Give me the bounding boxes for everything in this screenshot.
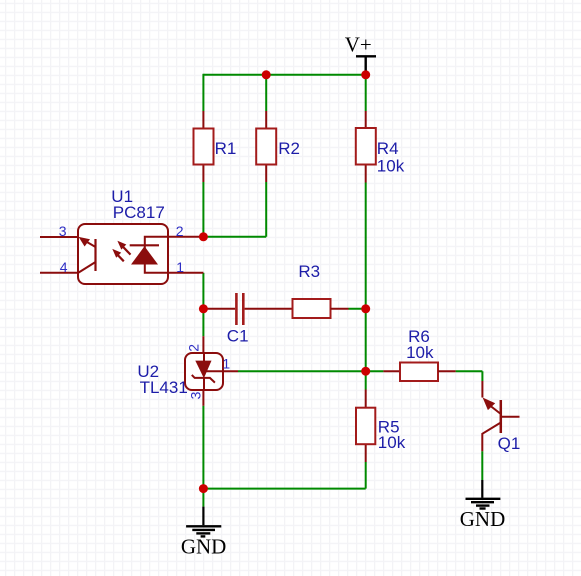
LED cathode bar (130, 244, 159, 246)
svg-text:1: 1 (176, 259, 184, 275)
svg-text:GND: GND (460, 507, 506, 531)
wire Q1 emitter to gnd (481, 451, 483, 480)
junction node U2 pin1 / R5 / R6 (361, 367, 370, 376)
ground right (460, 480, 506, 531)
wire U1 pin1 down to C1 node (202, 273, 204, 309)
wire R2 column from rail (265, 75, 267, 111)
wire left column from rail to R1 (202, 74, 204, 111)
svg-text:Q1: Q1 (498, 434, 521, 453)
wire R4 column from rail (365, 75, 367, 111)
pin 3 stub (40, 236, 78, 238)
triangle (195, 361, 211, 379)
pin 1 line (206, 370, 238, 372)
wire R3 to R4 column (349, 308, 366, 310)
svg-text:1: 1 (222, 356, 230, 372)
junction node V+ rail / R4 (361, 70, 370, 79)
svg-text:3: 3 (188, 391, 204, 399)
wire R5 bottom to gnd rail (203, 462, 365, 489)
body (185, 353, 223, 390)
resistor R2 (256, 111, 300, 182)
pin 2 top (202, 336, 204, 353)
wire node to R6 (366, 370, 384, 372)
wire C1 node down to U2 pin2 (202, 309, 204, 336)
resistor R3 (293, 262, 349, 318)
resistor R1 (194, 111, 237, 182)
capacitor C1 (203, 293, 292, 345)
resistor R4 (356, 111, 405, 183)
phototransistor base bar (94, 239, 96, 271)
svg-text:PC817: PC817 (113, 203, 165, 222)
internal vertical bottom (203, 378, 205, 390)
svg-text:TL431: TL431 (140, 378, 188, 397)
light arrow 1 (122, 245, 131, 254)
optocoupler U1 PC817 (40, 187, 203, 284)
emitter diagonal (79, 262, 96, 273)
internal vertical top (203, 353, 205, 361)
junction node ground rail (199, 484, 208, 493)
junction node U1 pin2 / R1 / R2 (199, 232, 208, 241)
wire R6 to Q1 collector (456, 371, 483, 381)
collector stub (481, 381, 483, 398)
svg-text:10k: 10k (378, 433, 406, 452)
svg-text:3: 3 (59, 223, 67, 239)
wire gnd node stub (202, 489, 204, 507)
svg-text:2: 2 (176, 223, 184, 239)
wire top rail (203, 74, 365, 76)
wire R1 bottom to node (202, 182, 204, 237)
pin 4 stub (40, 272, 78, 274)
emitter diagonal and lead (482, 423, 501, 452)
svg-text:R1: R1 (215, 139, 237, 158)
svg-text:10k: 10k (377, 156, 405, 175)
svg-text:R3: R3 (298, 262, 320, 281)
LED bracket (145, 237, 168, 273)
resistor R5 (356, 390, 406, 463)
collector diagonal with arrow (84, 240, 96, 247)
svg-text:R4: R4 (377, 139, 399, 158)
zener bar (192, 375, 215, 383)
svg-text:C1: C1 (227, 326, 249, 345)
body (78, 224, 168, 284)
power V+ symbol (345, 33, 376, 74)
svg-text:V+: V+ (345, 33, 372, 57)
svg-text:2: 2 (186, 344, 202, 352)
wire U2 pin3 down to gnd node (202, 406, 204, 490)
pin 3 bottom (202, 390, 204, 406)
resistor R6 (383, 327, 455, 381)
transistor Q1 (482, 381, 520, 453)
shunt regulator U2 TL431 (137, 336, 238, 406)
base lead (501, 416, 520, 418)
wire R4 bottom long vertical (365, 183, 367, 372)
wire U2 pin1 to node (238, 370, 366, 372)
ground left (181, 507, 227, 559)
wire node to R5 (365, 371, 367, 389)
light arrow 2 (116, 253, 124, 262)
base bar (500, 400, 503, 433)
svg-text:10k: 10k (406, 343, 434, 362)
svg-text:R2: R2 (278, 139, 300, 158)
svg-text:GND: GND (181, 534, 227, 558)
svg-text:4: 4 (60, 259, 68, 275)
pin 2 stub (168, 236, 203, 238)
LED triangle (131, 246, 158, 264)
junction node U1 pin1 / C1 (199, 304, 208, 313)
pin 1 stub (168, 272, 203, 274)
emitter arrow (483, 398, 496, 411)
junction node R3 / R4 column (361, 304, 370, 313)
junction node V+ rail / R2 (262, 70, 271, 79)
wire R2 bottom to node (203, 182, 266, 237)
